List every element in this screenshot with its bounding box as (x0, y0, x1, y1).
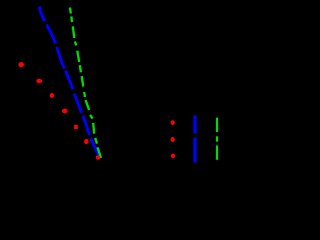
green curve dash 9 (86, 100, 90, 110)
red vertical dot 3 (171, 154, 175, 158)
green curve dash 7 (82, 76, 84, 87)
red data point 4 (62, 109, 68, 114)
green curve dash 5 (77, 51, 79, 62)
red data point 1 (19, 62, 24, 67)
blue curve dash 1 (40, 7, 45, 22)
blue curve dash 2 (47, 25, 56, 44)
blue vertical dash 1 (193, 116, 196, 134)
red dotted vertical series (right group) (171, 120, 176, 158)
green vertical dash 2 (216, 145, 218, 159)
green curve dash 11 (93, 123, 94, 134)
blue curve dash 6 (83, 116, 90, 135)
green curve dash 3 (73, 26, 75, 38)
red data point 6 (84, 139, 88, 144)
green curve dash 2 (70, 16, 73, 22)
red circle data points (left series) (19, 62, 101, 160)
green dash-dot model curve (near-vertical, descending) (70, 8, 101, 159)
blue vertical dash 2 (193, 138, 196, 163)
green curve dash 10 (90, 115, 93, 119)
green curve dash 6 (80, 65, 81, 72)
blue curve dash 7 (91, 138, 99, 156)
blue curve dash 3 (57, 47, 65, 69)
green vertical dot (216, 136, 218, 141)
green curve dash 12 (95, 138, 97, 144)
blue curve dash 5 (74, 94, 81, 113)
blue curve dash 4 (65, 71, 72, 90)
red data point 5 (square marker) (74, 125, 78, 129)
red data point 2 (36, 79, 42, 83)
green curve dash 4 (75, 42, 76, 46)
red vertical dot 1 (171, 120, 175, 125)
blue dashed vertical line (right group) (193, 116, 196, 163)
blue dashed model curve (left, steep descending) (40, 7, 99, 156)
green vertical dash 1 (216, 118, 218, 132)
red data point 7 (96, 155, 101, 159)
green dash-dot vertical line (right group) (216, 118, 218, 160)
green curve dash 13 (98, 147, 102, 158)
green curve dash 8 (83, 92, 86, 97)
red data point 3 (50, 93, 54, 98)
red vertical dot 2 (171, 137, 175, 142)
green curve dash 1 (69, 8, 72, 14)
